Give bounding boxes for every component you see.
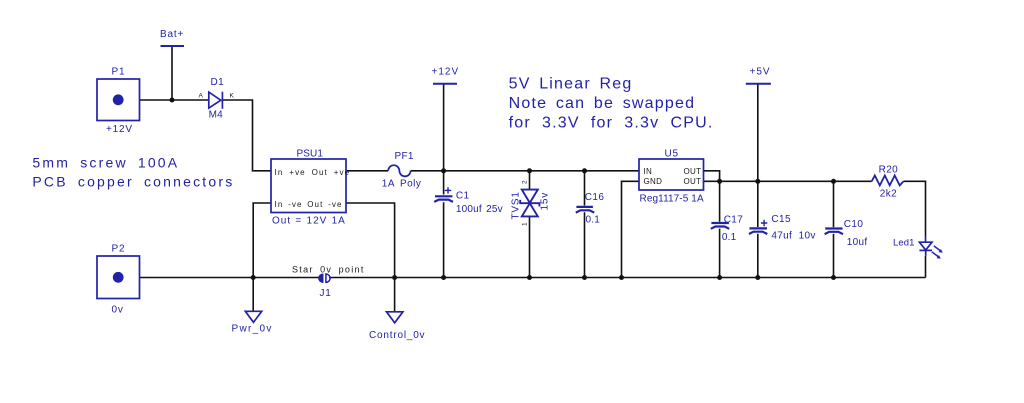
svg-text:C1: C1 xyxy=(456,190,470,201)
capacitor C17 xyxy=(711,214,743,243)
node junction 0v bus / C15 xyxy=(755,275,760,280)
node junction 0v bus / C17 xyxy=(717,275,722,280)
svg-text:C16: C16 xyxy=(585,192,605,203)
node junction 5V rail / C17 xyxy=(717,179,722,184)
wire TVS1 leads xyxy=(529,171,531,278)
svg-text:In +ve Out +ve: In +ve Out +ve xyxy=(275,168,351,177)
svg-text:15v: 15v xyxy=(540,192,551,211)
annotation 5mm screw xyxy=(32,155,234,190)
svg-text:0.1: 0.1 xyxy=(722,232,737,243)
node junction 0v bus / Control_0v xyxy=(392,275,397,280)
svg-text:5mm screw 100A: 5mm screw 100A xyxy=(32,155,179,171)
wire C1 leads xyxy=(443,171,445,278)
wire U5 GND to 0v bus xyxy=(622,181,640,277)
wire R20 to Led1 xyxy=(904,181,926,236)
PSU module PSU1 xyxy=(271,149,350,227)
svg-text:U5: U5 xyxy=(665,149,679,160)
diode D1 xyxy=(199,77,235,121)
svg-text:In -ve Out -ve: In -ve Out -ve xyxy=(275,200,343,209)
svg-text:0v: 0v xyxy=(112,305,124,316)
LED Led1 xyxy=(893,237,943,259)
svg-text:5V Linear Reg: 5V Linear Reg xyxy=(509,75,633,92)
svg-text:100uf 25v: 100uf 25v xyxy=(456,204,503,215)
capacitor C1 xyxy=(434,187,503,215)
connector P1 xyxy=(97,67,140,136)
wire C10 leads xyxy=(833,181,835,277)
svg-text:PSU1: PSU1 xyxy=(297,149,324,160)
node junction 0v bus / Pwr_0v xyxy=(251,275,256,280)
wire PSU1 Out-ve to 0v bus xyxy=(346,203,395,278)
resistor R20 xyxy=(872,164,904,199)
svg-text:0.1: 0.1 xyxy=(586,215,601,226)
svg-text:Out = 12V 1A: Out = 12V 1A xyxy=(272,216,346,227)
svg-text:2k2: 2k2 xyxy=(880,189,897,200)
svg-text:+12V: +12V xyxy=(106,124,133,135)
svg-text:OUT: OUT xyxy=(684,167,702,176)
wire Pwr_0v drop xyxy=(252,278,254,312)
wire +5V drop xyxy=(757,84,759,181)
svg-text:1: 1 xyxy=(522,222,529,226)
wire C17 leads xyxy=(719,181,721,277)
jumper J1 xyxy=(319,274,332,299)
svg-text:M4: M4 xyxy=(209,110,224,121)
wire Control_0v drop xyxy=(394,278,396,312)
node junction 0v bus / TVS1 xyxy=(527,275,532,280)
svg-text:2: 2 xyxy=(522,180,529,184)
regulator U5 xyxy=(639,149,704,205)
svg-text:R20: R20 xyxy=(879,164,899,175)
node junction 0v bus / C1 xyxy=(441,275,446,280)
node junction 12V rail / C16 xyxy=(582,168,587,173)
capacitor C15 xyxy=(749,214,816,241)
svg-text:C10: C10 xyxy=(844,219,864,230)
svg-text:Led1: Led1 xyxy=(893,237,915,248)
ground Pwr_0v xyxy=(232,311,273,334)
wire C15 leads xyxy=(757,181,759,277)
ground Control_0v xyxy=(369,312,425,341)
TVS diode TVS1 xyxy=(511,180,551,226)
wire PSU1 Out+ve to PF1 xyxy=(346,170,388,172)
node junction 5V rail / C15 xyxy=(755,179,760,184)
svg-text:Control_0v: Control_0v xyxy=(369,330,425,341)
node junction Bat+/P1 xyxy=(170,98,175,103)
svg-text:Reg1117-5 1A: Reg1117-5 1A xyxy=(640,194,704,205)
wire Bat+ drop xyxy=(171,47,173,101)
annotation 5V Linear Reg note xyxy=(509,75,714,131)
svg-text:1A Poly: 1A Poly xyxy=(382,179,422,190)
svg-text:PF1: PF1 xyxy=(395,151,414,162)
svg-text:Pwr_0v: Pwr_0v xyxy=(232,324,273,335)
power symbol Bat+ xyxy=(160,29,184,46)
node junction 0v bus / C10 xyxy=(831,275,836,280)
node junction 0v bus / U5 GND xyxy=(619,275,624,280)
node junction 5V rail / C10 xyxy=(831,179,836,184)
svg-text:C15: C15 xyxy=(771,214,791,225)
svg-text:GND: GND xyxy=(644,177,663,186)
wire Led1 to 0v bus xyxy=(925,256,927,278)
svg-text:for 3.3V for 3.3v CPU.: for 3.3V for 3.3v CPU. xyxy=(509,115,714,132)
svg-text:TVS1: TVS1 xyxy=(511,191,522,219)
svg-text:P1: P1 xyxy=(112,67,126,78)
wire 0v bus right of J1 xyxy=(329,277,926,279)
svg-text:10uf: 10uf xyxy=(847,237,868,248)
svg-text:Bat+: Bat+ xyxy=(160,29,184,40)
svg-text:PCB copper connectors: PCB copper connectors xyxy=(32,174,234,190)
polyfuse PF1 xyxy=(382,151,422,190)
node junction 0v bus / C16 xyxy=(582,275,587,280)
svg-text:K: K xyxy=(230,93,235,100)
capacitor C10 xyxy=(825,219,868,248)
svg-text:47uf 10v: 47uf 10v xyxy=(771,231,815,242)
node junction 12V rail / TVS1 xyxy=(527,168,532,173)
wire C16 leads xyxy=(584,171,586,278)
power symbol +5V xyxy=(746,67,771,84)
svg-text:P2: P2 xyxy=(112,244,126,255)
wire PSU1 In-ve to 0v bus xyxy=(253,203,271,278)
svg-text:C17: C17 xyxy=(724,214,744,225)
svg-text:A: A xyxy=(199,93,204,100)
wire D1 cathode to PSU1 In+ve xyxy=(223,100,271,171)
capacitor C16 xyxy=(576,192,605,226)
svg-text:+5V: +5V xyxy=(750,67,771,78)
wire 12V rail PF1 to U5 IN xyxy=(411,170,639,172)
svg-text:OUT: OUT xyxy=(684,177,702,186)
wire +12V drop xyxy=(443,84,445,171)
power symbol +12V xyxy=(432,67,460,84)
wire P1 to D1 anode xyxy=(140,99,209,101)
svg-text:Note can be swapped: Note can be swapped xyxy=(509,95,696,112)
node junction 12V rail / C1 xyxy=(441,168,446,173)
wire 0v bus left of J1 xyxy=(140,277,319,279)
wire U5 OUT top to 5V rail xyxy=(703,171,720,182)
svg-text:Star 0v point: Star 0v point xyxy=(292,265,365,275)
connector P2 xyxy=(97,244,140,316)
svg-text:J1: J1 xyxy=(320,288,332,299)
svg-text:+12V: +12V xyxy=(432,67,460,78)
wire 5V rail U5 to R20 xyxy=(703,180,872,182)
svg-text:IN: IN xyxy=(644,167,653,176)
svg-text:D1: D1 xyxy=(211,77,225,88)
